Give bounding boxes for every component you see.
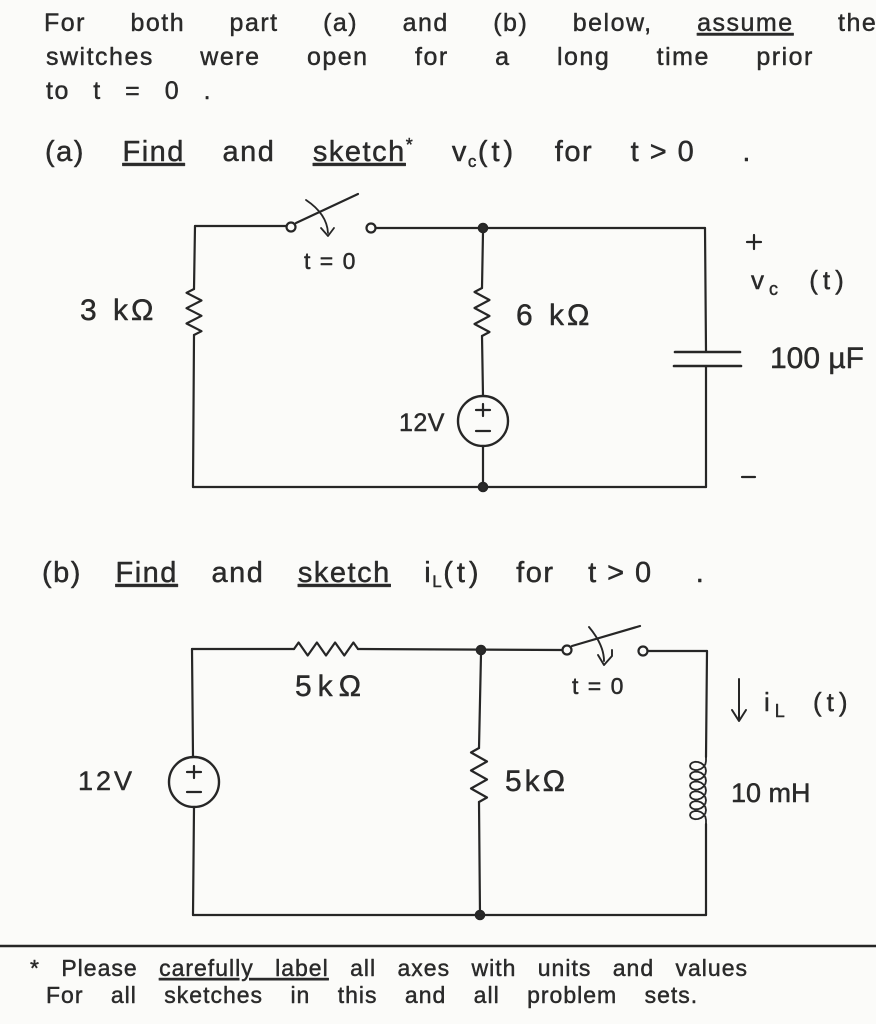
svg-text:(b) Find and sketch iL(t) for: (b) Find and sketch iL(t) for t>0 . <box>42 557 705 591</box>
wire: circuit B top-left horizontal <box>192 648 294 650</box>
switch SW2 (t=0) <box>563 626 648 665</box>
svg-text:For all sketches in this and a: For all sketches in this and all problem… <box>46 982 698 1008</box>
current arrow iL(t) <box>732 679 746 721</box>
wire: circuit A left vertical upper <box>194 226 195 289</box>
switch SW1 (t=0) <box>287 194 376 236</box>
resistor 3 kOhm <box>187 289 202 335</box>
voltage source 12V (circuit A) <box>458 396 508 446</box>
svg-text:vc (t): vc (t) <box>751 265 849 299</box>
wire: circuit B middle branch lower <box>479 802 480 915</box>
svg-text:5kΩ: 5kΩ <box>295 670 367 703</box>
wire: middle branch lower <box>482 446 484 487</box>
wire: middle branch between resistor and source <box>482 336 483 396</box>
footer rule <box>0 945 876 948</box>
wire: circuit B bottom horizontal <box>193 914 706 916</box>
svg-text:(a) Find and sketch* vc(t) for: (a) Find and sketch* vc(t) for t>0 . <box>45 135 752 171</box>
wire: middle branch upper <box>482 232 483 288</box>
wire: circuit B top-right horizontal <box>648 650 707 652</box>
resistor 5 kOhm (top) <box>294 643 358 656</box>
svg-text:to t = 0 .: to t = 0 . <box>46 77 212 105</box>
node: circuit A top junction <box>479 224 487 232</box>
capacitor 100uF <box>674 352 741 366</box>
node: circuit B bottom junction <box>476 911 484 919</box>
wire: circuit A left vertical lower <box>193 335 194 487</box>
svg-text:For both part (a) and (b) belo: For both part (a) and (b) below, assume … <box>44 9 876 37</box>
voltage source 12V (circuit B) <box>169 757 219 807</box>
svg-text:switches were open for a long: switches were open for a long time prior <box>46 43 814 71</box>
node: circuit B top junction <box>477 646 485 654</box>
wire: circuit A top middle-right horizontal <box>376 227 705 229</box>
svg-text:t = 0: t = 0 <box>572 673 625 699</box>
svg-text:3 kΩ: 3 kΩ <box>80 294 156 327</box>
wire: circuit B right vertical upper <box>706 651 707 757</box>
svg-text:12V: 12V <box>399 409 445 437</box>
wire: circuit A top-left horizontal <box>195 225 286 227</box>
minus sign of vc polarity <box>742 476 755 478</box>
svg-text:100 µF: 100 µF <box>770 342 864 375</box>
resistor 5 kOhm (middle) <box>471 748 487 802</box>
wire: circuit B top middle horizontal <box>358 649 562 650</box>
wire: circuit B right vertical lower <box>705 824 707 915</box>
wire: circuit B left vertical lower <box>193 807 194 915</box>
svg-text:5kΩ: 5kΩ <box>505 765 568 798</box>
svg-text:12V: 12V <box>78 766 135 796</box>
resistor 6 kOhm <box>475 288 490 336</box>
svg-text:10 mH: 10 mH <box>731 778 811 808</box>
node: circuit A bottom junction <box>479 483 487 491</box>
svg-text:6 kΩ: 6 kΩ <box>516 299 592 332</box>
svg-text:iL (t): iL (t) <box>764 687 853 721</box>
wire: circuit B left vertical upper <box>192 649 193 757</box>
svg-text:t = 0: t = 0 <box>304 248 357 274</box>
plus sign of vc polarity <box>747 235 761 249</box>
wire: circuit B middle branch upper <box>479 654 481 748</box>
wire: circuit A right vertical lower <box>705 366 707 487</box>
inductor 10 mH <box>690 757 706 824</box>
wire: circuit A right vertical upper <box>705 228 706 351</box>
wire: circuit A bottom horizontal <box>193 486 706 488</box>
svg-text:* Please carefully label all a: * Please carefully label all axes with u… <box>30 955 748 981</box>
